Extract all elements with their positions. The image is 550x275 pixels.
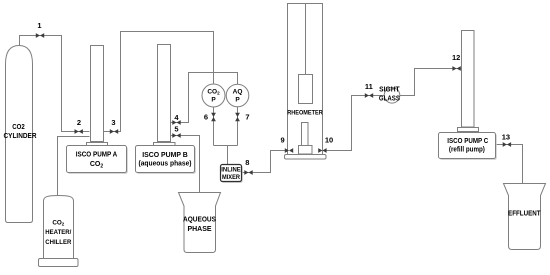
valve 3 symbol [110, 129, 118, 134]
ISCO pump C box [439, 133, 497, 160]
wire rheometer cell via valve 10 to sight glass riser [313, 96, 385, 151]
ISCO pump C column [462, 31, 475, 128]
valve 13 symbol [503, 142, 511, 147]
ISCO pump B flange [154, 143, 176, 146]
wire junction drop into inline mixer [227, 146, 229, 165]
svg-text:ISCO PUMP C: ISCO PUMP C [447, 138, 488, 145]
ISCO pump C flange [458, 128, 479, 132]
svg-text:8: 8 [245, 158, 249, 167]
svg-text:P: P [235, 96, 240, 103]
svg-text:P: P [211, 96, 216, 103]
wire pump B suction valve 5 down to aqueous phase beaker [171, 136, 200, 193]
svg-text:GLASS: GLASS [379, 96, 400, 103]
valve 10 symbol [318, 148, 326, 153]
sight glass circle [384, 88, 400, 104]
wire AQ P gauge down through valve 7 to junction [237, 107, 239, 146]
valve 11 symbol [365, 93, 373, 98]
valve 9 symbol [285, 148, 293, 153]
CO2 P pressure gauge circle [202, 84, 225, 107]
svg-text:AQUEOUS: AQUEOUS [183, 217, 216, 224]
svg-text:5: 5 [174, 125, 178, 134]
valve 8 symbol [244, 170, 252, 175]
svg-text:(refill pump): (refill pump) [449, 147, 485, 154]
svg-text:AQ: AQ [233, 88, 243, 95]
valve 7 symbol (vertical) [235, 113, 240, 121]
svg-text:ISCO PUMP A: ISCO PUMP A [76, 152, 118, 159]
valve 2 symbol [75, 129, 83, 134]
wire pump B outlet valve 4 riser to AQ P gauge [171, 73, 238, 123]
valve 6 symbol (vertical) [211, 113, 216, 121]
svg-text:(aqueous phase): (aqueous phase) [139, 161, 192, 168]
svg-text:PHASE: PHASE [187, 226, 211, 233]
wire CO2 cylinder to valve 1 and down to pump A inlet valve 2 [20, 36, 90, 132]
ISCO pump A box [67, 146, 128, 174]
rheometer spindle shaft line [305, 4, 307, 75]
ISCO pump B box [136, 146, 196, 174]
aqueous phase beaker [179, 193, 221, 253]
svg-text:HEATER/: HEATER/ [45, 229, 71, 236]
valve 1 symbol [36, 33, 44, 38]
svg-text:2: 2 [77, 118, 81, 127]
wire junction bar joining CO2 and AQ lines [214, 145, 238, 147]
svg-text:CHILLER: CHILLER [45, 239, 71, 246]
rheometer motor block [299, 75, 313, 104]
valve 5 symbol [172, 133, 180, 138]
svg-text:EFFLUENT: EFFLUENT [508, 211, 541, 218]
svg-text:RHEOMETER: RHEOMETER [287, 109, 323, 116]
svg-text:CO2: CO2 [12, 124, 25, 131]
wire mixer outlet via valve 8 up to rheometer cell valve 9 [242, 151, 299, 173]
svg-text:9: 9 [281, 135, 285, 144]
CO2 cylinder vessel [6, 46, 33, 223]
ISCO pump B column [158, 45, 171, 142]
svg-text:11: 11 [365, 82, 373, 91]
valve 4 symbol [172, 120, 180, 125]
svg-text:CYLINDER: CYLINDER [4, 133, 37, 140]
rheometer pressure cell cup [299, 146, 313, 155]
wire pump A outlet valve 3 riser to CO2 P gauge [104, 32, 214, 132]
rheometer measuring shaft [302, 123, 309, 146]
wire heater/chiller up to pump A inlet [58, 137, 90, 197]
wire pump C outlet via valve 13 down to effluent beaker [496, 145, 523, 184]
svg-text:7: 7 [245, 113, 249, 122]
svg-text:ISCO PUMP B: ISCO PUMP B [142, 152, 188, 159]
CO2 heater/chiller base [39, 259, 79, 267]
svg-text:SIGHT: SIGHT [379, 86, 400, 93]
svg-text:6: 6 [204, 113, 208, 122]
rheometer outer housing [288, 4, 323, 155]
valve 12 symbol [452, 66, 460, 71]
svg-text:1: 1 [37, 21, 41, 30]
effluent beaker [504, 184, 546, 250]
svg-text:MIXER: MIXER [222, 174, 240, 181]
AQ P pressure gauge circle [226, 84, 249, 107]
ISCO pump A flange [87, 143, 108, 146]
wire CO2 P gauge down through valve 6 to junction [213, 107, 215, 146]
inline mixer box [221, 165, 243, 183]
svg-text:10: 10 [325, 135, 333, 144]
svg-text:3: 3 [111, 118, 115, 127]
svg-text:12: 12 [452, 53, 460, 62]
wire sight glass to valve 12 into pump C column [400, 69, 462, 96]
CO2 heater/chiller vessel body [44, 196, 74, 259]
rheometer base plate [285, 155, 327, 160]
svg-text:13: 13 [502, 132, 510, 141]
ISCO pump A column [91, 46, 104, 142]
svg-text:INLINE: INLINE [221, 166, 241, 173]
